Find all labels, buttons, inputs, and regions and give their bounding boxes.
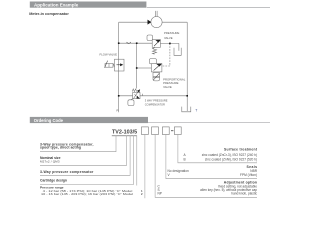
svg-text:PRESSURE: PRESSURE bbox=[164, 31, 180, 35]
svg-text:zinc coated (ZnNi), ISO 9227 (: zinc coated (ZnNi), ISO 9227 (520 h) bbox=[205, 157, 257, 161]
svg-text:Surface treatment: Surface treatment bbox=[224, 148, 258, 152]
svg-text:Meter-in compensator: Meter-in compensator bbox=[29, 12, 69, 16]
svg-text:No designation: No designation bbox=[168, 169, 189, 173]
svg-text:zinc coated (ZnCr-3), ISO 9227: zinc coated (ZnCr-3), ISO 9227 (240 h) bbox=[202, 153, 257, 157]
svg-text:FPM (Viton): FPM (Viton) bbox=[240, 173, 257, 177]
svg-text:B: B bbox=[184, 157, 186, 161]
svg-text:3-Way pressure compensator: 3-Way pressure compensator bbox=[40, 170, 94, 174]
svg-text:FLOW VALVE: FLOW VALVE bbox=[100, 53, 118, 57]
svg-text:Ordering Code: Ordering Code bbox=[34, 118, 64, 123]
svg-text:Cartridge design: Cartridge design bbox=[40, 179, 67, 183]
svg-text:hand knob, plastic: hand knob, plastic bbox=[231, 192, 257, 196]
svg-text:TV2-103/5: TV2-103/5 bbox=[112, 130, 137, 136]
svg-text:VALVE: VALVE bbox=[164, 36, 173, 40]
svg-text:3 WAY PRESSURE: 3 WAY PRESSURE bbox=[145, 99, 168, 103]
svg-text:NP: NP bbox=[158, 192, 162, 196]
svg-text:P: P bbox=[116, 109, 118, 113]
svg-text:10 - 16 bar (145 - 203 PSI);: 10 - 16 bar (145 - 203 PSI); 16 bar (203… bbox=[41, 192, 133, 196]
svg-text:M27x2 / QM3: M27x2 / QM3 bbox=[40, 159, 60, 163]
svg-text:spool type, direct acting: spool type, direct acting bbox=[40, 146, 81, 150]
svg-text:VALVE: VALVE bbox=[163, 85, 172, 89]
svg-text:T: T bbox=[195, 108, 197, 112]
svg-text:COMPENSATOR: COMPENSATOR bbox=[145, 102, 165, 106]
svg-text:Application Example: Application Example bbox=[34, 3, 79, 8]
